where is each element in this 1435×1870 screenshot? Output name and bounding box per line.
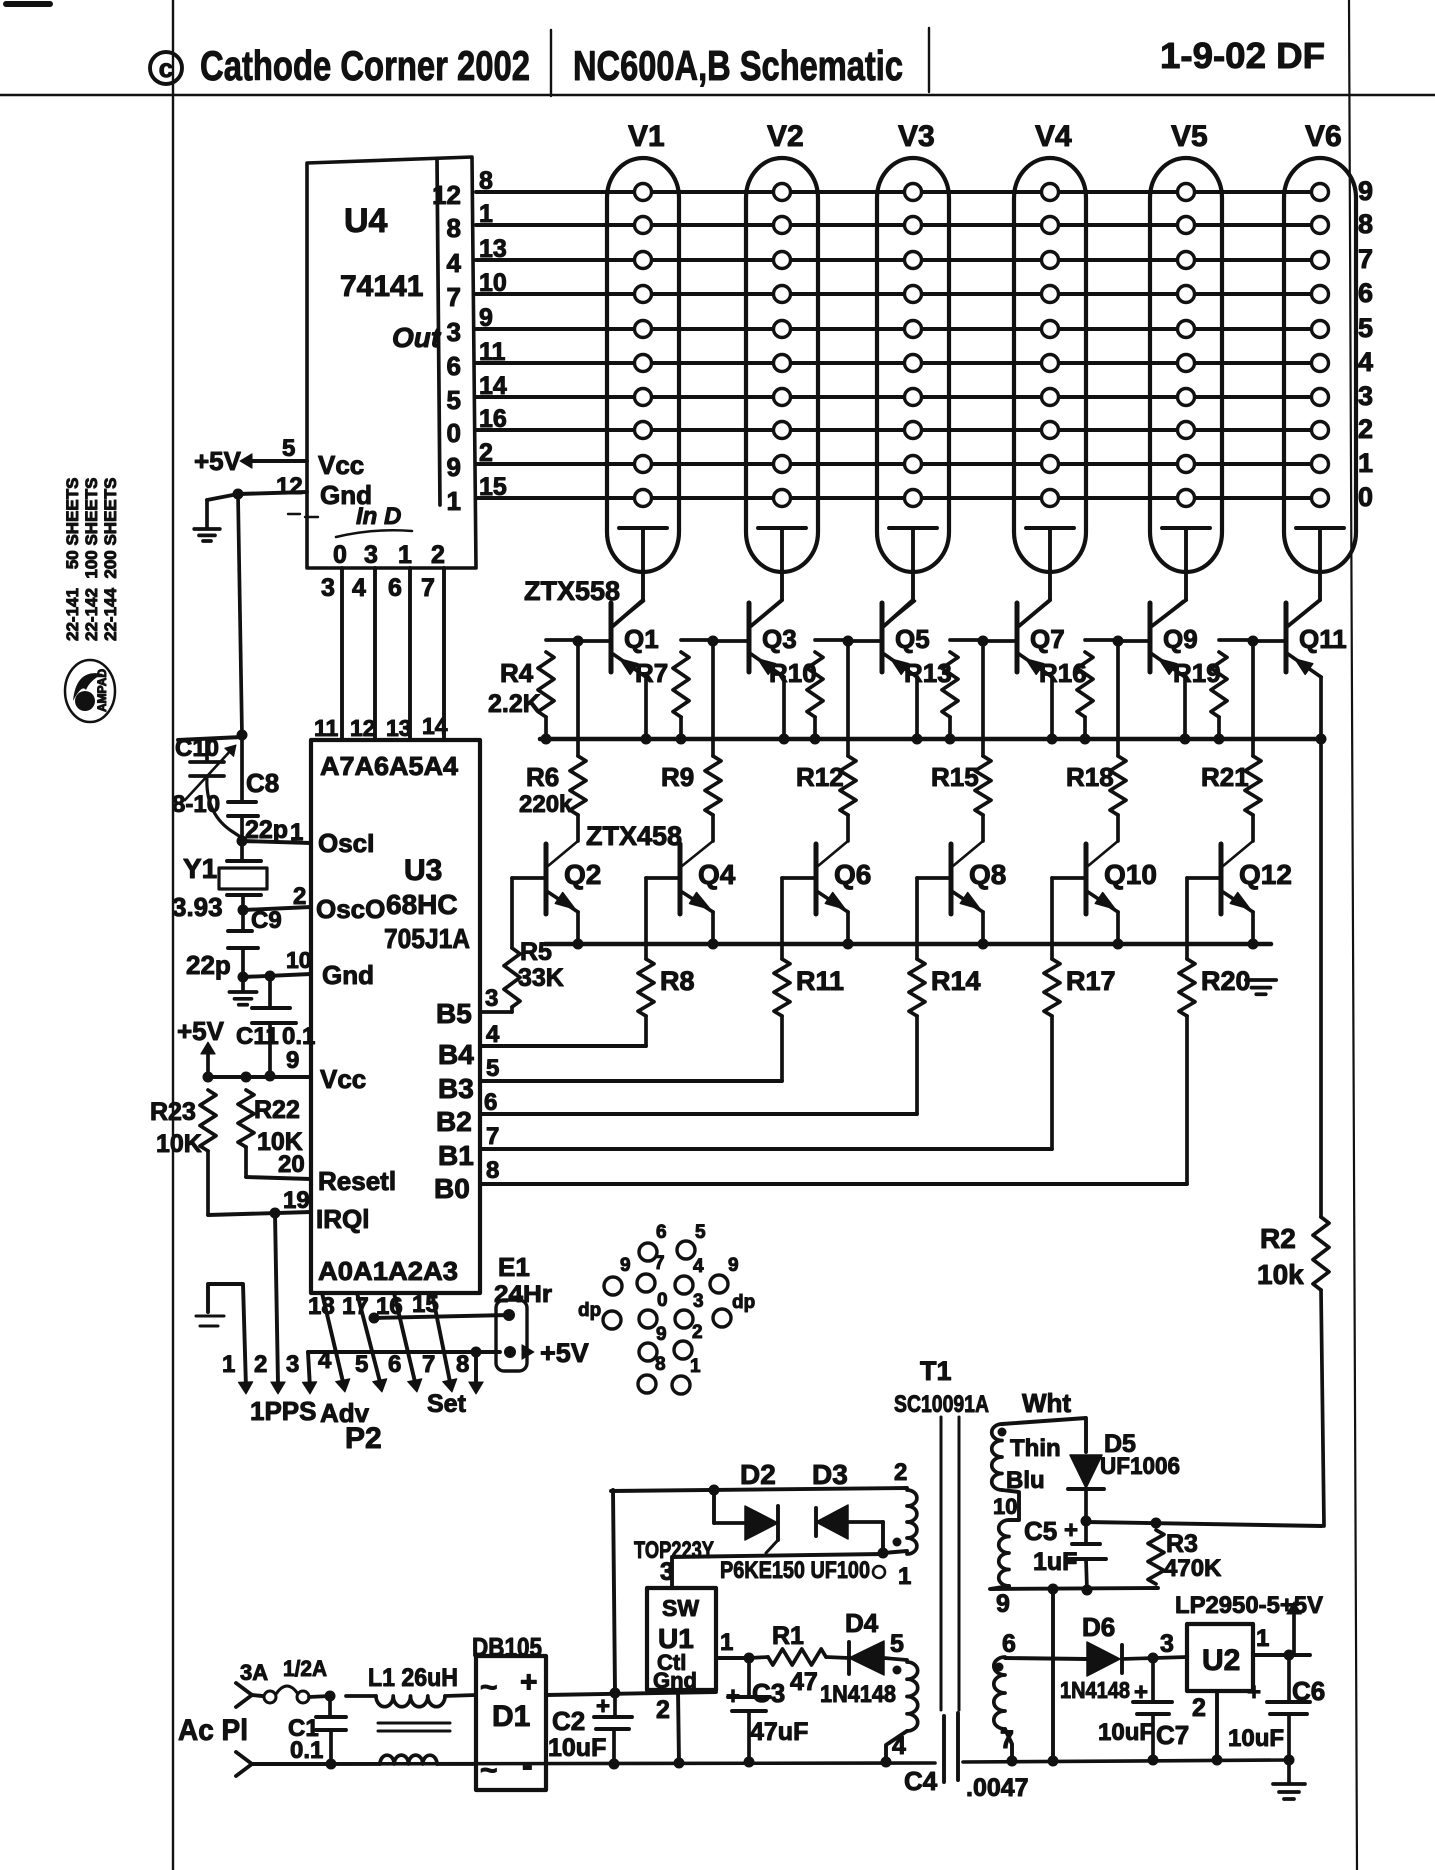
- junction R4 bus: [541, 734, 552, 745]
- svg-text:5: 5: [447, 385, 461, 415]
- svg-text:1: 1: [690, 1356, 701, 1377]
- svg-text:0: 0: [333, 541, 347, 569]
- capacitor C5 1uF: [1084, 1521, 1088, 1544]
- svg-text:4: 4: [352, 574, 366, 602]
- svg-text:6: 6: [1358, 278, 1373, 308]
- transistor Q2: [544, 844, 549, 914]
- ground symbol secondary: [1287, 1760, 1291, 1782]
- svg-text:R18: R18: [1066, 762, 1114, 792]
- E1 pin top: [503, 1309, 515, 1321]
- svg-text:24Hr: 24Hr: [494, 1281, 552, 1308]
- junction Q3 emitter: [779, 734, 790, 745]
- transistor Q6: [814, 844, 819, 914]
- svg-text:C6: C6: [1292, 1676, 1325, 1706]
- svg-text:R16: R16: [1039, 658, 1087, 688]
- svg-text:+5V: +5V: [194, 446, 242, 476]
- diode D3 UF100x: [814, 1508, 818, 1536]
- wire pin6 to D6: [1005, 1658, 1087, 1659]
- tube V5 pins: [1178, 184, 1195, 201]
- svg-text:47uF: 47uF: [750, 1718, 808, 1746]
- U2 output pin 1: [1253, 1653, 1310, 1657]
- HV node wire: [1086, 1522, 1322, 1526]
- svg-text:8: 8: [456, 1351, 469, 1378]
- resistor R6: [576, 641, 580, 756]
- junction U1 gnd: [674, 1758, 685, 1769]
- svg-text:2: 2: [894, 1459, 907, 1486]
- transistor Q3: [747, 603, 752, 672]
- svg-text:C8: C8: [246, 768, 279, 798]
- P2 pin 2 wire: [275, 1213, 278, 1384]
- svg-text:Out: Out: [392, 322, 442, 353]
- svg-text:3: 3: [447, 317, 461, 347]
- svg-text:Wht: Wht: [1022, 1388, 1071, 1418]
- resistor R12: [846, 641, 850, 756]
- svg-text:7: 7: [422, 1351, 435, 1378]
- svg-text:D2: D2: [740, 1459, 776, 1490]
- svg-text:2: 2: [431, 541, 445, 569]
- junction C1 bottom: [326, 1759, 337, 1770]
- transformer T1 secondary winding upper: [992, 1424, 1002, 1490]
- svg-text:3: 3: [1160, 1630, 1174, 1658]
- svg-text:7: 7: [1000, 1726, 1014, 1754]
- transistor Q8: [949, 844, 954, 914]
- svg-text:P6KE150 UF100: P6KE150 UF100: [720, 1557, 870, 1584]
- svg-text:2: 2: [1358, 414, 1373, 444]
- wire Gnd pin 10: [243, 974, 311, 977]
- svg-text:Q2: Q2: [564, 859, 601, 890]
- resistor R14: [915, 878, 919, 959]
- wires U4 to U3: [340, 568, 344, 740]
- svg-text:+: +: [596, 1693, 610, 1720]
- svg-text:ZTX558: ZTX558: [524, 576, 620, 606]
- junction Q7 base node: [978, 636, 989, 647]
- junction HV return rail: [1048, 1756, 1059, 1767]
- svg-text:D4: D4: [845, 1608, 879, 1638]
- svg-text:C4: C4: [904, 1766, 938, 1796]
- svg-text:5: 5: [890, 1630, 904, 1658]
- junction drain: [878, 1548, 889, 1559]
- wire secondary to D5: [1002, 1418, 1086, 1452]
- svg-text:R6: R6: [526, 762, 559, 792]
- nixie tube V3: [877, 158, 949, 572]
- svg-text:9: 9: [286, 1047, 299, 1074]
- svg-text:OscO: OscO: [316, 894, 385, 924]
- wire Vcc pin 9: [208, 1075, 311, 1079]
- svg-text:c: c: [159, 53, 173, 83]
- junction HV node: [1081, 1516, 1092, 1527]
- wire drain to pin1: [883, 1551, 907, 1553]
- svg-text:6: 6: [656, 1222, 667, 1243]
- svg-text:10k: 10k: [1257, 1259, 1304, 1290]
- E1 pin bottom: [504, 1346, 516, 1358]
- IC U1 TOP223Y: [647, 1588, 716, 1690]
- tube V6 pins: [1312, 184, 1329, 201]
- svg-text:3.93: 3.93: [172, 892, 223, 922]
- U1 source pin 2: [678, 1690, 679, 1763]
- nixie tube V5: [1150, 158, 1222, 572]
- P2 pin 1 wire: [208, 1284, 246, 1388]
- svg-text:C3: C3: [752, 1678, 785, 1708]
- wire Reset pin 20: [246, 1177, 311, 1179]
- tube V5 anode lead: [1162, 526, 1210, 530]
- svg-text:4: 4: [1358, 347, 1373, 377]
- svg-text:R10: R10: [769, 658, 817, 688]
- resistor R9: [711, 641, 715, 756]
- svg-text:4: 4: [318, 1347, 332, 1374]
- svg-text:V2: V2: [767, 120, 804, 153]
- junction P2 pin 8: [471, 1347, 482, 1358]
- inductor L1 26uH: [346, 1694, 376, 1698]
- wire U4 gnd to oscillator: [238, 494, 242, 735]
- wire OscO pin 2: [243, 907, 311, 910]
- svg-text:V4: V4: [1035, 120, 1072, 153]
- svg-text:B3: B3: [438, 1073, 474, 1104]
- svg-text:LP2950-5+5V: LP2950-5+5V: [1175, 1592, 1323, 1619]
- svg-text:1uF: 1uF: [1033, 1548, 1077, 1576]
- svg-text:9: 9: [996, 1590, 1010, 1618]
- svg-text:10K: 10K: [156, 1130, 202, 1158]
- U2 gnd pin 2: [1215, 1691, 1219, 1760]
- resistor R21: [1251, 641, 1255, 756]
- svg-text:+: +: [520, 1666, 538, 1699]
- capacitor C7 10uF: [1151, 1658, 1155, 1702]
- svg-text:Thin: Thin: [1010, 1435, 1061, 1462]
- svg-text:UF1006: UF1006: [1100, 1453, 1180, 1480]
- diode D2 P6KE150: [714, 1521, 745, 1525]
- svg-text:Q7: Q7: [1030, 624, 1065, 654]
- svg-text:C11: C11: [236, 1023, 279, 1050]
- junction R10 bus: [810, 734, 821, 745]
- capacitor C8 22p: [240, 735, 244, 802]
- svg-text:Gnd: Gnd: [322, 960, 374, 990]
- junction Q1 emitter: [641, 734, 652, 745]
- svg-text:1: 1: [398, 541, 412, 569]
- svg-text:B1: B1: [438, 1140, 474, 1171]
- svg-text:C5: C5: [1024, 1516, 1057, 1546]
- junction Q6 emitter: [843, 939, 854, 950]
- svg-text:B4: B4: [438, 1039, 474, 1070]
- svg-text:+: +: [726, 1683, 740, 1710]
- junction HV return: [1048, 1584, 1059, 1595]
- svg-text:R17: R17: [1066, 966, 1116, 996]
- P2 +5V wire: [308, 1350, 500, 1354]
- tube V3 anode lead: [889, 526, 937, 530]
- AC input hot: [236, 1683, 252, 1695]
- svg-text:+5V: +5V: [177, 1016, 225, 1046]
- svg-text:1: 1: [898, 1563, 911, 1590]
- svg-text:2: 2: [692, 1322, 703, 1343]
- svg-text:6: 6: [388, 574, 402, 602]
- wire OscI: [242, 841, 311, 843]
- resistor R8: [644, 878, 648, 959]
- junction Q11 base node: [1248, 636, 1259, 647]
- svg-text:U3: U3: [404, 854, 442, 887]
- resistor R1 47: [749, 1657, 768, 1658]
- svg-text:dp: dp: [732, 1292, 755, 1313]
- svg-text:C2: C2: [552, 1706, 585, 1736]
- svg-text:8: 8: [486, 1157, 499, 1184]
- svg-text:8-10: 8-10: [172, 791, 220, 818]
- svg-text:DB105: DB105: [472, 1632, 542, 1662]
- P2 pin 4 wire: [322, 1293, 343, 1382]
- junction Q3 base node: [708, 636, 719, 647]
- svg-text:U2: U2: [1202, 1644, 1240, 1677]
- resistor R10: [815, 638, 848, 642]
- wire drain: [672, 1554, 883, 1586]
- svg-text:470K: 470K: [1164, 1555, 1222, 1582]
- svg-text:1: 1: [447, 486, 461, 516]
- svg-text:T1: T1: [920, 1356, 952, 1386]
- wire snubber down: [712, 1490, 716, 1523]
- junction Q11 emitter: [1316, 734, 1327, 745]
- nixie tube V4: [1014, 158, 1086, 572]
- nixie tube V2: [746, 158, 818, 572]
- primary top rail: [611, 1488, 907, 1491]
- svg-text:5: 5: [486, 1055, 499, 1082]
- diode D6 1N4148: [1087, 1642, 1120, 1676]
- svg-text:R20: R20: [1201, 966, 1251, 996]
- tube V6 anode lead: [1296, 526, 1344, 530]
- svg-text:220k: 220k: [519, 791, 573, 818]
- P2 pin 3 wire: [308, 1352, 310, 1388]
- svg-text:R22: R22: [254, 1096, 300, 1124]
- bridge rectifier D1 DB105: [476, 1656, 546, 1790]
- svg-text:3: 3: [485, 985, 498, 1012]
- junction C3 bottom: [744, 1757, 755, 1768]
- svg-text:Q1: Q1: [624, 624, 659, 654]
- wire IRQ pin 19: [208, 1212, 311, 1215]
- junction Q4 emitter: [708, 939, 719, 950]
- svg-text:12: 12: [350, 715, 376, 741]
- trimmer capacitor C10 8-10p: [178, 737, 242, 740]
- svg-text:4: 4: [892, 1732, 906, 1760]
- svg-text:1N4148: 1N4148: [1060, 1677, 1130, 1703]
- svg-text:10uF: 10uF: [1098, 1719, 1154, 1746]
- junction OscO: [238, 905, 249, 916]
- svg-text:ZTX458: ZTX458: [586, 821, 682, 851]
- tube V3 pins: [905, 184, 922, 201]
- junction Q12 emitter: [1248, 939, 1259, 950]
- junction IRQ: [270, 1208, 281, 1219]
- svg-text:22-141 50 SHEETS: 22-141 50 SHEETS: [63, 478, 82, 641]
- junction R13 bus: [945, 734, 956, 745]
- svg-text:2: 2: [254, 1351, 267, 1378]
- svg-text:7: 7: [447, 282, 461, 312]
- svg-text:8: 8: [447, 213, 461, 243]
- resistor R3 470K: [1148, 1530, 1164, 1584]
- junction A2 pin 16: [369, 1313, 380, 1324]
- svg-text:R8: R8: [660, 966, 695, 996]
- bottom rail primary: [252, 1763, 935, 1764]
- junction snubber: [709, 1485, 720, 1496]
- transistor Q4: [678, 844, 683, 914]
- svg-text:Resetl: Resetl: [318, 1166, 396, 1196]
- svg-text:1/2A: 1/2A: [283, 1656, 327, 1681]
- junction OscI: [237, 836, 248, 847]
- resistor R19: [1219, 638, 1253, 642]
- nixie tube V6: [1284, 158, 1356, 572]
- junction Q5 base node: [843, 636, 854, 647]
- svg-text:10: 10: [286, 947, 312, 973]
- junction Q9 base node: [1113, 636, 1124, 647]
- capacitor C2 10uF: [613, 1693, 617, 1717]
- svg-text:Gnd: Gnd: [653, 1668, 697, 1693]
- resistor R11: [780, 878, 784, 959]
- svg-text:E1: E1: [498, 1252, 530, 1282]
- junction Q2 emitter: [573, 939, 584, 950]
- svg-text:R14: R14: [931, 966, 981, 996]
- svg-text:IRQl: IRQl: [316, 1204, 369, 1234]
- svg-text:B0: B0: [434, 1173, 470, 1204]
- resistor R20: [1185, 878, 1189, 959]
- resistor R4: [546, 638, 578, 642]
- svg-text:R12: R12: [796, 762, 844, 792]
- svg-text:D1: D1: [492, 1700, 530, 1733]
- svg-text:L1 26uH: L1 26uH: [368, 1664, 458, 1692]
- svg-text:Q5: Q5: [895, 624, 930, 654]
- svg-text:3: 3: [693, 1291, 704, 1312]
- svg-text:9: 9: [620, 1255, 631, 1276]
- svg-text:1: 1: [720, 1629, 733, 1656]
- svg-text:B2: B2: [436, 1106, 472, 1137]
- tube V1 anode lead: [619, 526, 667, 530]
- svg-text:Cathode Corner 2002: Cathode Corner 2002: [200, 42, 530, 89]
- transformer T1 bias winding: [907, 1662, 918, 1731]
- svg-text:R21: R21: [1201, 762, 1249, 792]
- wire D1 plus rail: [546, 1692, 716, 1695]
- svg-text:Y1: Y1: [183, 853, 217, 884]
- svg-text:10uF: 10uF: [1228, 1725, 1284, 1752]
- transistor Q1: [609, 603, 614, 672]
- svg-text:V3: V3: [898, 120, 935, 153]
- svg-text:+: +: [1247, 1679, 1261, 1706]
- svg-text:TOP223Y: TOP223Y: [634, 1537, 714, 1564]
- svg-text:4: 4: [447, 248, 462, 278]
- transistor Q7: [1015, 603, 1020, 672]
- junction C7 top: [1148, 1653, 1159, 1664]
- svg-text:+: +: [1064, 1517, 1078, 1544]
- svg-text:2: 2: [293, 883, 306, 910]
- svg-text:12: 12: [276, 473, 303, 500]
- svg-text:Q9: Q9: [1163, 624, 1198, 654]
- svg-text:Q6: Q6: [834, 859, 871, 890]
- junction C7 bottom: [1148, 1755, 1159, 1766]
- svg-text:705J1A: 705J1A: [384, 923, 470, 954]
- junction Q7 emitter: [1047, 734, 1058, 745]
- svg-text:2.2K: 2.2K: [488, 690, 541, 718]
- svg-text:B5: B5: [436, 998, 472, 1029]
- svg-text:8: 8: [655, 1354, 666, 1375]
- svg-text:0: 0: [1358, 482, 1373, 512]
- svg-text:22-142 100 SHEETS: 22-142 100 SHEETS: [82, 478, 101, 641]
- svg-text:5: 5: [282, 435, 295, 462]
- tube V4 pins: [1042, 184, 1059, 201]
- svg-text:74141: 74141: [340, 270, 423, 303]
- svg-text:SW: SW: [662, 1595, 699, 1621]
- svg-text:dp: dp: [578, 1300, 601, 1321]
- transistor Q5: [880, 603, 885, 672]
- junction C2 bottom: [609, 1759, 620, 1770]
- P2 pin 8 wire: [474, 1352, 478, 1384]
- transistor Q11: [1284, 603, 1289, 672]
- wire HV return: [1051, 1589, 1055, 1761]
- svg-text:22p: 22p: [186, 950, 231, 980]
- svg-text:.0047: .0047: [966, 1774, 1029, 1802]
- transformer T1 secondary winding lower: [994, 1657, 1005, 1729]
- junction C6 bottom: [1284, 1755, 1295, 1766]
- svg-text:0.1: 0.1: [290, 1737, 323, 1764]
- svg-text:In D: In D: [356, 503, 401, 530]
- AC input neutral: [236, 1752, 252, 1764]
- svg-text:+5V: +5V: [540, 1338, 589, 1368]
- svg-text:AMPAD: AMPAD: [95, 669, 109, 712]
- svg-text:3: 3: [321, 574, 335, 602]
- svg-text:1-9-02 DF: 1-9-02 DF: [1160, 35, 1325, 76]
- junction Vcc b: [241, 1072, 252, 1083]
- svg-text:7: 7: [1358, 244, 1373, 274]
- svg-text:V6: V6: [1305, 120, 1342, 153]
- svg-text:R23: R23: [150, 1098, 196, 1126]
- junction bias return: [881, 1757, 892, 1768]
- svg-text:Vcc: Vcc: [320, 1064, 366, 1094]
- junction R7 bus: [676, 734, 687, 745]
- junction C5 bottom: [1082, 1585, 1093, 1596]
- svg-text:6: 6: [484, 1089, 497, 1116]
- bottom rail secondary: [963, 1760, 1289, 1762]
- IC U4 74141: [307, 157, 476, 568]
- svg-text:6: 6: [447, 351, 461, 381]
- resistor R17: [1050, 878, 1054, 959]
- tube V2 anode lead: [758, 526, 806, 530]
- junction R3 top: [1151, 1518, 1162, 1529]
- IC U3 68HC705J1A: [311, 740, 480, 1293]
- svg-text:9: 9: [447, 452, 461, 482]
- svg-text:R3: R3: [1166, 1530, 1198, 1558]
- svg-text:6: 6: [1002, 1630, 1016, 1658]
- resistor R18: [1116, 641, 1120, 756]
- svg-text:1N4148: 1N4148: [820, 1681, 896, 1708]
- resistor R2 10k: [1319, 739, 1323, 1217]
- svg-text:10uF: 10uF: [548, 1734, 606, 1762]
- svg-text:R9: R9: [661, 762, 694, 792]
- svg-text:D3: D3: [812, 1459, 848, 1490]
- svg-text:Q11: Q11: [1299, 624, 1347, 654]
- IC U2 LP2950-5: [1187, 1624, 1253, 1691]
- nixie tube V1: [607, 158, 679, 572]
- svg-text:R1: R1: [772, 1622, 804, 1650]
- svg-text:Vcc: Vcc: [318, 450, 364, 480]
- svg-text:Ac Pl: Ac Pl: [178, 1714, 248, 1747]
- svg-text:1: 1: [1358, 448, 1373, 478]
- svg-text:13: 13: [386, 715, 412, 741]
- junction R16 bus: [1080, 734, 1091, 745]
- svg-text:A7A6A5A4: A7A6A5A4: [320, 751, 459, 781]
- svg-text:2: 2: [1192, 1694, 1206, 1722]
- svg-text:68HC: 68HC: [386, 889, 458, 920]
- svg-text:3: 3: [364, 541, 378, 569]
- crystal Y1 3.93: [240, 841, 244, 861]
- svg-text:47: 47: [790, 1668, 818, 1696]
- capacitor C9 22p: [241, 910, 245, 931]
- ground symbol oscillator: [241, 977, 245, 990]
- svg-text:R2: R2: [1260, 1223, 1296, 1254]
- junction Q10 emitter: [1113, 939, 1124, 950]
- svg-text:R19: R19: [1173, 658, 1221, 688]
- svg-text:3A: 3A: [240, 1660, 268, 1685]
- svg-text:V5: V5: [1171, 120, 1208, 153]
- svg-text:5: 5: [1358, 313, 1373, 343]
- svg-text:OscI: OscI: [318, 828, 374, 858]
